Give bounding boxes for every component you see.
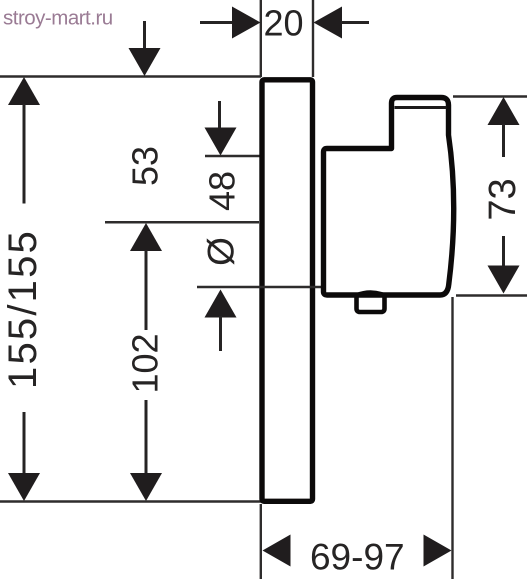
- svg-text:20: 20: [263, 3, 303, 44]
- dim 155 bottom shaft: [23, 412, 26, 474]
- wall plate (escutcheon): [262, 80, 313, 502]
- dim 20 left arrow: [232, 7, 261, 39]
- dim 73 bottom shaft: [502, 236, 505, 266]
- dim 48 bottom arrow (up): [205, 290, 237, 318]
- tick line y156 (48 top): [205, 155, 260, 158]
- dim 102 shaft upper: [145, 250, 148, 330]
- svg-text:53: 53: [125, 146, 166, 186]
- extension line bottom-left of 69-97: [260, 504, 262, 579]
- dim 53 top shaft: [143, 21, 146, 50]
- svg-text:155/155: 155/155: [1, 229, 45, 389]
- valve body with spout: [324, 98, 454, 296]
- dim 69-97 left arrow: [263, 535, 291, 567]
- dim 73 bottom arrow (down): [488, 266, 520, 294]
- dim 102 shaft lower: [145, 400, 148, 474]
- svg-text:102: 102: [125, 333, 166, 393]
- svg-text:69-97: 69-97: [310, 537, 405, 578]
- tick line y222 (53/102 boundary): [105, 221, 259, 224]
- dim 48 bottom shaft: [219, 316, 222, 351]
- dim 155 bottom arrow (down): [8, 473, 40, 501]
- dim 69-97 right arrow: [424, 535, 452, 567]
- dim 155 top arrow (up): [8, 77, 40, 105]
- bottom tab: [357, 293, 385, 312]
- top horizontal extension line y77: [0, 75, 261, 78]
- extension line top-right of 20: [312, 0, 314, 77]
- dim 73 top arrow (up): [488, 97, 520, 125]
- extension line bottom-right of 69-97: [451, 297, 453, 579]
- tick line 73 top: [453, 95, 527, 98]
- dim 20 right arrow: [314, 7, 343, 39]
- svg-text:73: 73: [482, 178, 524, 220]
- svg-text:Ø: Ø: [201, 237, 242, 266]
- dim 20 right shaft: [341, 21, 369, 24]
- dim 20 left shaft: [200, 21, 233, 24]
- dim 102 bottom arrow (down): [130, 473, 162, 501]
- dim 48 top shaft: [218, 101, 221, 129]
- dim 48 top arrow (down): [205, 128, 237, 156]
- svg-text:stroy-mart.ru: stroy-mart.ru: [3, 6, 113, 29]
- spout seam line: [395, 106, 447, 109]
- svg-text:48: 48: [202, 171, 243, 211]
- dim 102 top arrow (up): [130, 223, 162, 251]
- bottom horizontal extension line y501: [0, 500, 261, 503]
- tick line y287 (48 bottom, crosses plate): [197, 286, 321, 289]
- tab top dome: [357, 292, 385, 295]
- tick line 73 bottom: [456, 294, 527, 297]
- extension line top-left of 20: [260, 0, 262, 77]
- dim 73 top shaft: [502, 124, 505, 157]
- dim 53 top arrow (down): [129, 48, 161, 76]
- dim 155 top shaft: [23, 104, 26, 204]
